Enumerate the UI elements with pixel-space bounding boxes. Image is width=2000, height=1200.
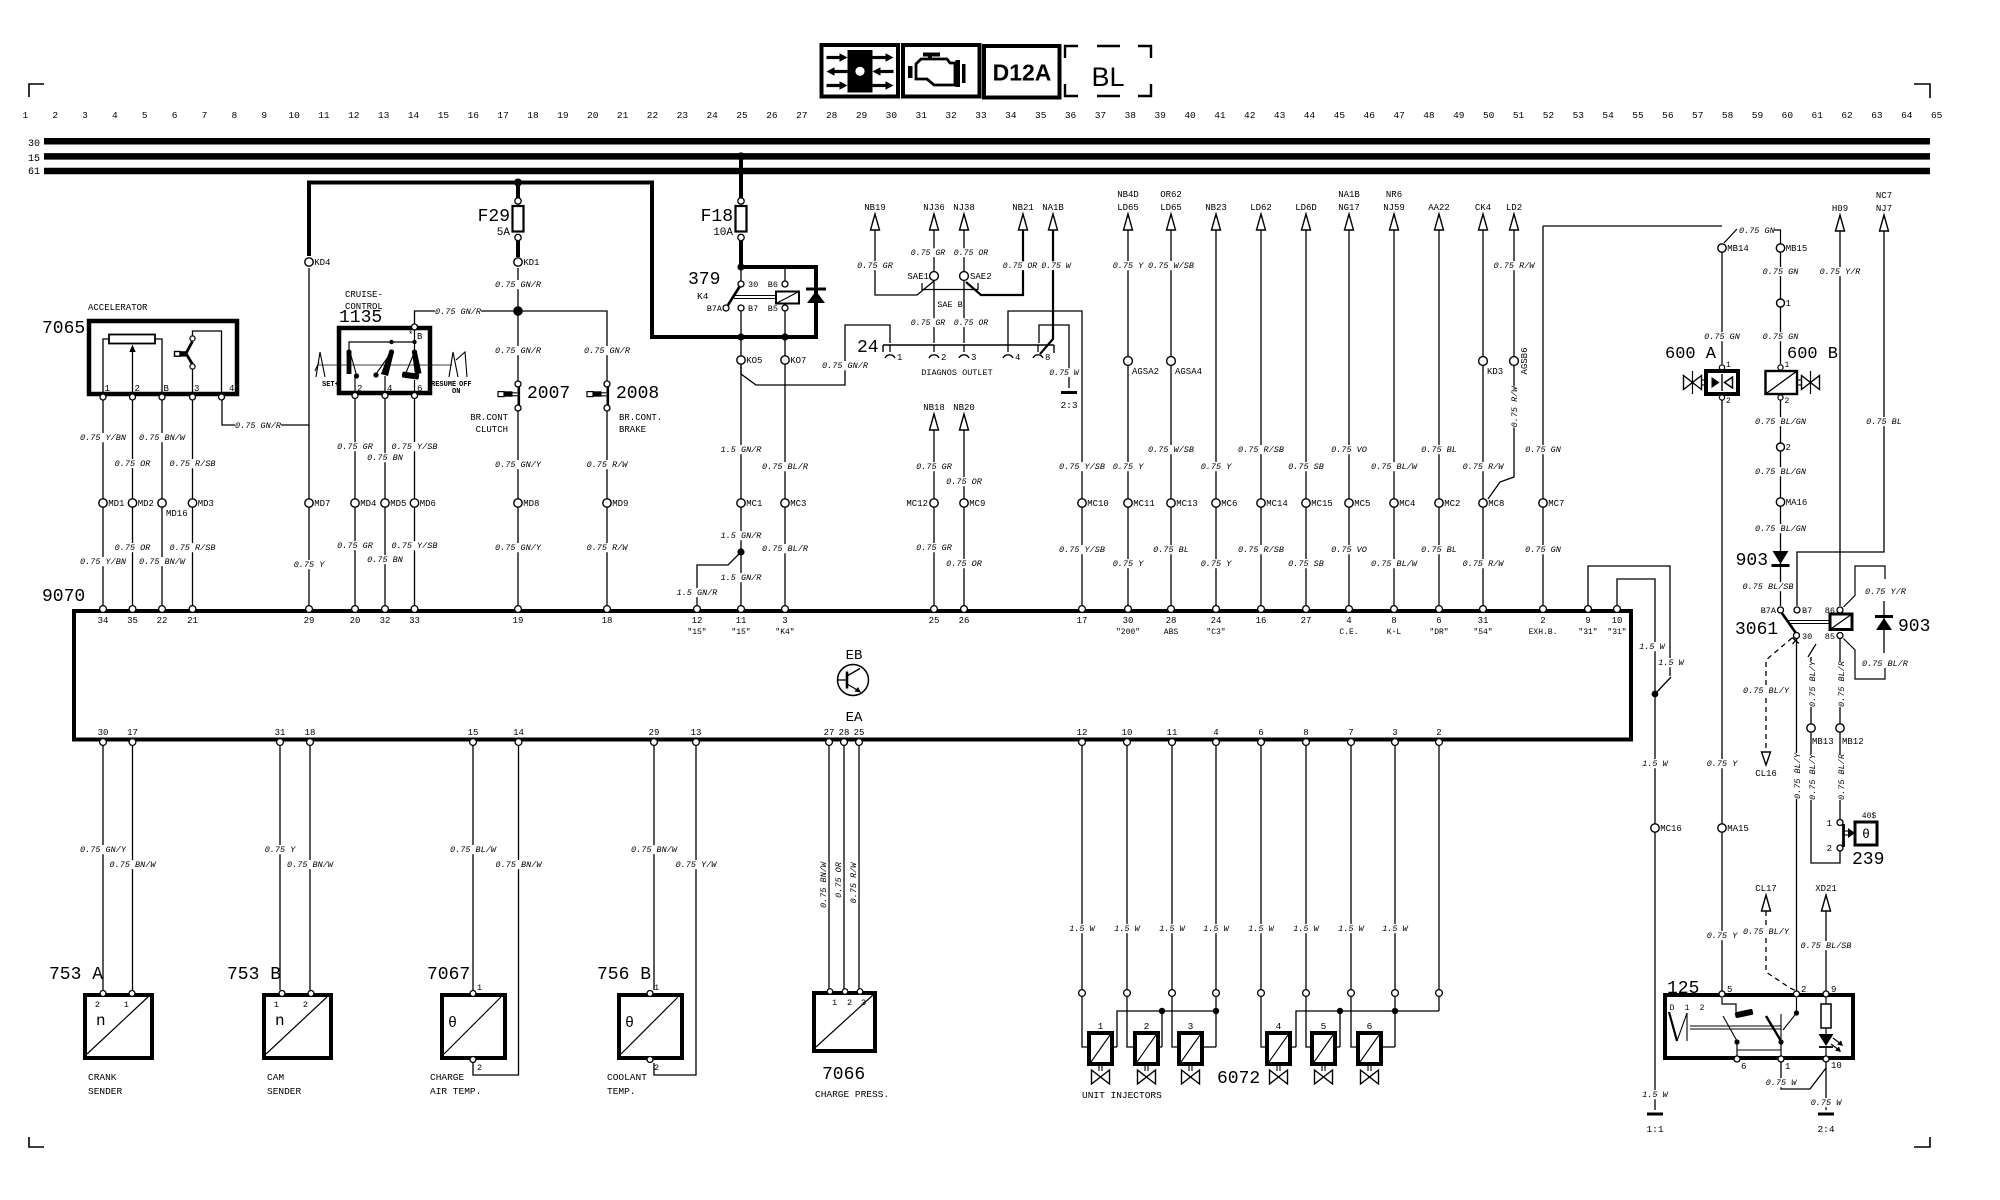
connector MC11 <box>1124 499 1132 507</box>
125 pin 9 <box>1823 991 1829 997</box>
svg-text:0.75 Y/SB: 0.75 Y/SB <box>392 541 438 551</box>
svg-text:22: 22 <box>647 110 659 121</box>
svg-text:0.75 BL/Y: 0.75 BL/Y <box>1743 927 1790 937</box>
svg-text:30: 30 <box>1123 616 1134 626</box>
wire MC7 column from MB14 line <box>1542 226 1544 499</box>
relay 3061 pin 86 <box>1837 607 1843 613</box>
ECU pin 3 top <box>782 606 789 613</box>
svg-text:31: 31 <box>1478 616 1489 626</box>
svg-text:24: 24 <box>1211 616 1222 626</box>
relay 3061 coil <box>1830 614 1852 630</box>
svg-text:0.75 BL/R: 0.75 BL/R <box>1837 660 1847 707</box>
junction on bus 15 feeding F18 <box>737 152 745 160</box>
svg-text:0.75 BL/W: 0.75 BL/W <box>1371 559 1418 569</box>
svg-text:0.75 SB: 0.75 SB <box>1288 559 1324 569</box>
svg-text:22: 22 <box>157 616 168 626</box>
svg-text:MC7: MC7 <box>1548 499 1564 509</box>
svg-text:29: 29 <box>649 728 660 738</box>
ECU pin 28 top <box>1168 606 1175 613</box>
ground 1:1 <box>1647 1113 1663 1116</box>
ECU pin 16 top <box>1258 606 1265 613</box>
wire 7066 pin2 to ECU 28 <box>843 745 845 989</box>
ECU pin 6 top <box>1436 606 1443 613</box>
svg-text:0.75 OR: 0.75 OR <box>834 861 844 898</box>
fuse F18 10A <box>738 198 744 204</box>
svg-text:0.75 BL/Y: 0.75 BL/Y <box>1793 752 1803 799</box>
svg-text:6: 6 <box>1367 1021 1373 1032</box>
svg-text:18: 18 <box>602 616 613 626</box>
svg-text:47: 47 <box>1393 110 1404 121</box>
svg-text:NC7: NC7 <box>1876 191 1892 201</box>
svg-text:KO7: KO7 <box>790 356 806 366</box>
svg-text:6: 6 <box>1258 728 1263 738</box>
svg-text:0.75 BN/W: 0.75 BN/W <box>819 861 829 908</box>
wire MD9 to pin 18 <box>606 507 608 607</box>
svg-text:59: 59 <box>1752 110 1764 121</box>
svg-text:0.75 BN/W: 0.75 BN/W <box>110 860 157 870</box>
arrow NG17 <box>1345 214 1354 230</box>
svg-text:SAE B: SAE B <box>937 300 963 310</box>
svg-text:1.5 W: 1.5 W <box>1114 924 1140 934</box>
svg-text:0.75 OR: 0.75 OR <box>946 477 983 487</box>
svg-text:5A: 5A <box>497 227 511 239</box>
ECU pin 8 bottom <box>1303 739 1310 746</box>
icon BL bracket <box>1065 46 1078 58</box>
ECU pin 24 top <box>1213 606 1220 613</box>
ECU pin 18 bottom <box>307 739 314 746</box>
svg-text:B: B <box>417 332 423 342</box>
ECU pin 4 bottom <box>1213 739 1220 746</box>
relay 379 pin B6 <box>784 267 786 281</box>
svg-text:28: 28 <box>839 728 850 738</box>
connector MB13 <box>1808 644 1816 657</box>
wire outlet pin4 to MC10 <box>1008 311 1082 499</box>
svg-text:1.5 GN/R: 1.5 GN/R <box>721 573 763 583</box>
svg-text:MA16: MA16 <box>1786 498 1808 508</box>
wire NB18 to MC12 <box>933 430 935 499</box>
svg-text:n: n <box>275 1012 285 1030</box>
125 pin 5 <box>1719 991 1725 997</box>
svg-text:0.75 GN: 0.75 GN <box>1763 267 1800 277</box>
wire 753A pin1 to ECU 17 <box>132 745 134 990</box>
branch wire to pin 12 <box>697 552 741 607</box>
outlet pin8 bracket to ground <box>1039 325 1069 388</box>
ECU pin 4 top <box>1346 606 1353 613</box>
svg-text:SENDER: SENDER <box>88 1086 123 1097</box>
page corner marks <box>29 84 44 97</box>
connector MC2 <box>1435 499 1443 507</box>
svg-text:EA: EA <box>846 710 863 726</box>
svg-text:BR.CONT.: BR.CONT. <box>619 413 662 423</box>
svg-text:55: 55 <box>1632 110 1644 121</box>
wire 756B pin1 to ECU 29 <box>653 745 655 990</box>
wire NJ36 to SAE1 <box>933 230 935 271</box>
svg-text:MB13: MB13 <box>1812 737 1834 747</box>
svg-text:64: 64 <box>1901 110 1913 121</box>
svg-text:NB4D: NB4D <box>1117 190 1139 200</box>
wire 7067 pin1 to ECU 15 <box>472 745 474 990</box>
svg-text:33: 33 <box>409 616 420 626</box>
svg-text:50: 50 <box>1483 110 1495 121</box>
svg-text:MC9: MC9 <box>969 499 985 509</box>
wire XD21 to 125 pin 9 <box>1825 911 1827 991</box>
svg-text:61: 61 <box>1811 110 1823 121</box>
connector injector column 6 <box>1303 990 1310 997</box>
svg-text:MC5: MC5 <box>1354 499 1370 509</box>
svg-text:85: 85 <box>1825 632 1835 642</box>
injector group 2 bus <box>1296 1011 1439 1047</box>
svg-text:OR62: OR62 <box>1160 190 1182 200</box>
sensor 7066 charge pressure <box>814 993 875 1051</box>
svg-text:2:4: 2:4 <box>1817 1124 1834 1135</box>
svg-text:2: 2 <box>303 1000 308 1010</box>
ECU pin 31 top <box>1480 606 1487 613</box>
svg-text:6: 6 <box>1741 1062 1746 1072</box>
svg-text:0.75 R/SB: 0.75 R/SB <box>170 543 216 553</box>
relay 379 pin B5 <box>782 305 788 311</box>
svg-text:MC6: MC6 <box>1221 499 1237 509</box>
svg-text:0.75 BL: 0.75 BL <box>1153 545 1189 555</box>
svg-text:29: 29 <box>856 110 868 121</box>
wires MD connectors to ECU pins <box>102 507 104 607</box>
125 pin 1 <box>1778 1056 1784 1062</box>
relay 379 pin 30 <box>740 267 742 281</box>
ECU pin 6 bottom <box>1258 739 1265 746</box>
wire 756B pin2 to ECU 13 <box>654 745 696 1075</box>
svg-text:31: 31 <box>275 728 286 738</box>
svg-text:MD4: MD4 <box>360 499 376 509</box>
svg-text:30: 30 <box>886 110 898 121</box>
svg-text:BRAKE: BRAKE <box>619 425 646 435</box>
connector MD7 <box>305 499 313 507</box>
wire MB13 to 239 pin2 <box>1811 732 1840 863</box>
ECU pin 10 bottom <box>1124 739 1131 746</box>
icon flow box <box>822 45 899 97</box>
svg-text:0.75 R/W: 0.75 R/W <box>1463 559 1505 569</box>
svg-text:34: 34 <box>98 616 109 626</box>
svg-text:KD4: KD4 <box>314 258 330 268</box>
7065 pin B internal <box>155 339 162 394</box>
svg-text:25: 25 <box>854 728 865 738</box>
svg-text:6: 6 <box>417 384 422 394</box>
svg-text:1.5 GN/R: 1.5 GN/R <box>677 588 719 598</box>
diode 903 upper <box>1773 551 1789 564</box>
svg-text:CHARGE PRESS.: CHARGE PRESS. <box>815 1089 889 1100</box>
1135 switch SET <box>347 351 352 374</box>
svg-text:"15": "15" <box>731 628 750 637</box>
1135 actuator linkage grey <box>318 364 452 366</box>
svg-text:2: 2 <box>477 1063 482 1073</box>
wire MC5 to ECU <box>1348 507 1350 607</box>
svg-text:14: 14 <box>408 110 420 121</box>
svg-text:"C3": "C3" <box>1206 628 1225 637</box>
wire SAE1 to outlet pin2 <box>933 280 935 343</box>
ECU pin 29 bottom <box>651 739 658 746</box>
svg-text:MC14: MC14 <box>1266 499 1288 509</box>
svg-text:7: 7 <box>202 110 208 121</box>
svg-text:2007: 2007 <box>527 384 570 404</box>
connector MB15 <box>1776 244 1784 252</box>
svg-text:0.75 R/SB: 0.75 R/SB <box>1238 445 1284 455</box>
wire MC13 to ECU <box>1170 507 1172 607</box>
svg-text:0.75 Y: 0.75 Y <box>1113 559 1145 569</box>
svg-text:0.75 GR: 0.75 GR <box>916 462 953 472</box>
relay 3061 pin B7 <box>1794 607 1800 613</box>
arrow CK4 <box>1479 214 1488 230</box>
ECU pin 19 top <box>515 606 522 613</box>
svg-text:0.75 R/W: 0.75 R/W <box>587 460 629 470</box>
svg-text:1: 1 <box>22 110 28 121</box>
connector MC7 <box>1539 499 1547 507</box>
ECU pin 32 top <box>382 606 389 613</box>
connector injector column 8 <box>1392 990 1399 997</box>
svg-text:0.75 BL/W: 0.75 BL/W <box>450 845 497 855</box>
svg-text:753 A: 753 A <box>49 965 103 985</box>
arrow LD62 <box>1257 214 1266 230</box>
label 0.75 R/W rotated <box>1510 386 1520 428</box>
svg-text:33: 33 <box>975 110 987 121</box>
7065 pin circles <box>100 394 106 400</box>
connector MC16 <box>1651 824 1659 832</box>
svg-text:0.75 Y: 0.75 Y <box>1201 462 1233 472</box>
wire MC16 to ground 1:1 <box>1654 832 1656 1110</box>
ECU pin 28 bottom <box>841 739 848 746</box>
svg-text:51: 51 <box>1513 110 1525 121</box>
svg-text:10: 10 <box>1612 616 1623 626</box>
svg-text:38: 38 <box>1125 110 1137 121</box>
wire ECU to injector column 2 <box>1126 745 1128 990</box>
1135 switch ON-OFF <box>412 349 417 354</box>
svg-text:C.E.: C.E. <box>1339 628 1358 637</box>
svg-text:F29: F29 <box>478 207 510 227</box>
svg-text:1.5 W: 1.5 W <box>1338 924 1364 934</box>
svg-text:0.75 R/W: 0.75 R/W <box>587 543 629 553</box>
svg-text:239: 239 <box>1852 850 1884 870</box>
ECU pin 14 bottom <box>515 739 522 746</box>
svg-text:0.75 OR: 0.75 OR <box>115 543 152 553</box>
svg-text:2: 2 <box>1827 844 1832 854</box>
svg-text:21: 21 <box>187 616 198 626</box>
wire MC14 to ECU <box>1260 507 1262 607</box>
svg-text:28: 28 <box>826 110 838 121</box>
wire NB20 to MC9 <box>963 430 965 499</box>
svg-text:0.75 BL/SB: 0.75 BL/SB <box>1800 941 1851 951</box>
svg-text:3: 3 <box>1188 1021 1194 1032</box>
svg-text:0.75 GN: 0.75 GN <box>1525 445 1562 455</box>
svg-text:57: 57 <box>1692 110 1703 121</box>
ground 2:3 <box>1061 391 1077 394</box>
svg-text:0.75 OR: 0.75 OR <box>115 459 152 469</box>
ECU pin 33 top <box>411 606 418 613</box>
connector MC9 <box>960 499 968 507</box>
svg-text:B: B <box>164 384 170 394</box>
svg-text:1.5 W: 1.5 W <box>1159 924 1185 934</box>
svg-text:2: 2 <box>1540 616 1545 626</box>
svg-text:0.75 BL/Y: 0.75 BL/Y <box>1808 660 1818 707</box>
svg-text:MC11: MC11 <box>1133 499 1155 509</box>
junction dots on relay bottom rail <box>737 333 744 340</box>
connector MC15 <box>1302 499 1310 507</box>
svg-text:0.75 BL/GN: 0.75 BL/GN <box>1755 417 1807 427</box>
svg-text:UNIT INJECTORS: UNIT INJECTORS <box>1082 1090 1162 1101</box>
wire NG17 to MC5 <box>1348 230 1350 499</box>
ECU pin 21 top <box>189 606 196 613</box>
svg-text:25: 25 <box>929 616 940 626</box>
svg-text:2: 2 <box>1700 1004 1705 1013</box>
wire KO5 to MC1 <box>740 364 742 499</box>
1135 pin circles 2 4 6 <box>352 393 358 399</box>
svg-text:13: 13 <box>691 728 702 738</box>
svg-text:27: 27 <box>824 728 835 738</box>
svg-text:θ: θ <box>1862 827 1870 842</box>
bus 61 <box>44 168 1930 175</box>
svg-text:41: 41 <box>1214 110 1226 121</box>
wire ECU to injector column 4 <box>1215 745 1217 990</box>
svg-text:27: 27 <box>1301 616 1312 626</box>
svg-text:24: 24 <box>706 110 718 121</box>
svg-text:6072: 6072 <box>1217 1069 1260 1089</box>
connector MD9 <box>603 499 611 507</box>
ECU pin 3 bottom <box>1392 739 1399 746</box>
connector injector column 1 <box>1079 990 1086 997</box>
diode of relay 379 <box>806 288 826 291</box>
svg-text:SET+: SET+ <box>322 381 339 389</box>
svg-text:2: 2 <box>654 1063 659 1073</box>
connector MC13 <box>1167 499 1175 507</box>
svg-text:0.75 W/SB: 0.75 W/SB <box>1148 261 1194 271</box>
wire ECU to injector column 8 <box>1394 745 1396 990</box>
wire 85 to MB12 <box>1839 639 1841 725</box>
7065 wiper pin2 <box>132 352 134 394</box>
relay 3061 lever <box>1782 613 1796 633</box>
svg-text:0.75 GN: 0.75 GN <box>1525 545 1562 555</box>
wire accelerator pin4 to KD4 column <box>222 397 309 425</box>
arrow LD6D <box>1302 214 1311 230</box>
svg-text:3: 3 <box>1392 728 1397 738</box>
potentiometer in 7065 <box>109 335 155 344</box>
svg-text:12: 12 <box>348 110 360 121</box>
svg-text:25: 25 <box>736 110 748 121</box>
svg-text:MD7: MD7 <box>314 499 330 509</box>
svg-text:0.75 R/W: 0.75 R/W <box>1494 261 1536 271</box>
connector MB12 <box>1836 724 1844 732</box>
bus 15 <box>44 153 1930 160</box>
svg-text:48: 48 <box>1423 110 1435 121</box>
svg-text:0.75 Y: 0.75 Y <box>1113 261 1145 271</box>
svg-text:4: 4 <box>1276 1021 1282 1032</box>
outlet 24 pin 8 <box>1037 345 1039 352</box>
wires MD4-6 to ECU <box>354 507 356 607</box>
svg-text:10A: 10A <box>713 227 733 239</box>
wire 125 pin1 to pin10 join <box>1781 1062 1826 1089</box>
svg-text:40: 40 <box>1184 110 1196 121</box>
wire ECU to injector column 1 <box>1081 745 1083 990</box>
svg-text:CHARGE: CHARGE <box>430 1072 465 1083</box>
svg-text:2: 2 <box>135 384 140 394</box>
connector MC8 <box>1479 499 1487 507</box>
relay 379 contact lever <box>728 286 740 305</box>
svg-text:"DR": "DR" <box>1429 628 1448 637</box>
wire KD1 to junction <box>517 268 519 311</box>
svg-text:0.75 OR: 0.75 OR <box>954 319 988 328</box>
connector AGSA4 <box>1167 357 1176 366</box>
svg-text:42: 42 <box>1244 110 1256 121</box>
connector injector column 2 <box>1124 990 1131 997</box>
label 0.75 Y on MD7 wire <box>294 560 325 569</box>
svg-text:0.75 BN/W: 0.75 BN/W <box>631 845 678 855</box>
svg-text:2008: 2008 <box>616 384 659 404</box>
bus 30 <box>44 138 1930 145</box>
relay 379 pin B7 <box>738 305 744 311</box>
svg-text:"15": "15" <box>687 628 706 637</box>
wire to MC16 <box>1654 694 1656 824</box>
svg-text:35: 35 <box>1035 110 1047 121</box>
svg-text:0.75 BL/SB: 0.75 BL/SB <box>1742 582 1793 592</box>
svg-text:1.5 W: 1.5 W <box>1069 924 1095 934</box>
relay 3061 linkage <box>1788 620 1830 622</box>
svg-text:1: 1 <box>124 1000 129 1010</box>
svg-text:12: 12 <box>692 616 703 626</box>
connector MB14 <box>1724 229 1737 243</box>
svg-text:0.75 GR: 0.75 GR <box>337 541 374 551</box>
svg-text:0.75 Y/SB: 0.75 Y/SB <box>1059 462 1105 472</box>
outlet 24 pin 2 <box>933 345 935 352</box>
diode 903 lower <box>1883 601 1885 653</box>
svg-text:14: 14 <box>513 728 524 738</box>
connector MC12 <box>930 499 938 507</box>
svg-text:0.75 Y/SB: 0.75 Y/SB <box>392 442 438 452</box>
svg-text:1: 1 <box>477 983 482 993</box>
svg-text:0.75 BL/W: 0.75 BL/W <box>1371 462 1418 472</box>
svg-text:NR6: NR6 <box>1386 190 1402 200</box>
ECU pin 26 top <box>961 606 968 613</box>
svg-text:65: 65 <box>1931 110 1943 121</box>
wire MC1 to pin 11 with branch <box>740 507 742 607</box>
svg-text:7067: 7067 <box>427 965 470 985</box>
svg-text:2: 2 <box>1726 397 1731 406</box>
svg-text:B6: B6 <box>768 280 778 290</box>
svg-text:4: 4 <box>1015 353 1020 363</box>
wire NB23 to MC6 <box>1215 230 1217 499</box>
valve 600 A butterfly <box>1684 376 1693 390</box>
1135 external actuators <box>316 352 325 377</box>
svg-text:58: 58 <box>1722 110 1734 121</box>
svg-text:0.75 GN: 0.75 GN <box>1763 332 1800 342</box>
svg-text:0.75 Y: 0.75 Y <box>1113 462 1145 472</box>
svg-text:SAE2: SAE2 <box>970 272 992 282</box>
svg-text:0.75 GN/R: 0.75 GN/R <box>435 307 482 317</box>
wire H09 to 3061 pin 86 <box>1839 231 1841 606</box>
wire pin 10 to switch <box>1617 579 1655 692</box>
svg-text:1.5 W: 1.5 W <box>1639 642 1665 652</box>
dashed wire CL17 to 125 pin2 wire <box>1766 911 1797 991</box>
ECU pin 22 top <box>159 606 166 613</box>
svg-text:753 B: 753 B <box>227 965 281 985</box>
ECU pin 17 bottom <box>129 739 136 746</box>
svg-text:TEMP.: TEMP. <box>607 1086 636 1097</box>
svg-text:MD3: MD3 <box>198 499 214 509</box>
svg-text:30: 30 <box>98 728 109 738</box>
injector box exits <box>1112 1046 1117 1048</box>
connector MD8 <box>514 499 522 507</box>
connector KO7 <box>781 356 789 364</box>
ECU pin 34 top <box>100 606 107 613</box>
label 0.75 GN/R on pin4 wire <box>235 421 281 430</box>
svg-text:61: 61 <box>28 167 40 178</box>
connector MC3 <box>781 499 789 507</box>
svg-text:0.75 Y/SB: 0.75 Y/SB <box>1059 545 1105 555</box>
svg-text:0.75 BL: 0.75 BL <box>1866 417 1902 427</box>
